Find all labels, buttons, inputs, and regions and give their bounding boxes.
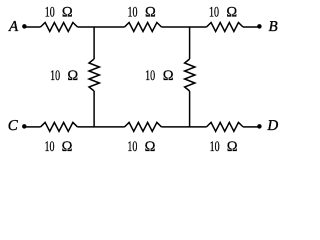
wire R2 to R3 through top junction 2 xyxy=(162,26,207,28)
resistor R2 10 ohm top-middle xyxy=(125,23,162,32)
wire R8 down to bottom junction 2 xyxy=(189,91,191,127)
wire top junction 2 down to R8 xyxy=(189,27,191,59)
wire R6 to node D xyxy=(243,126,258,128)
svg-text:10: 10 xyxy=(127,139,137,155)
svg-text:10: 10 xyxy=(128,5,138,21)
resistor R8 10 ohm vertical-right xyxy=(185,59,195,91)
wire R5 to R6 through bottom junction 2 xyxy=(162,126,207,128)
svg-text:10: 10 xyxy=(209,5,219,21)
svg-text:Ω: Ω xyxy=(145,5,156,21)
wire R7 down to bottom junction 1 xyxy=(93,91,95,127)
resistor R4 10 ohm bottom-left xyxy=(41,122,78,131)
resistor R6 10 ohm bottom-right xyxy=(207,122,244,131)
wire top junction 1 down to R7 xyxy=(93,27,95,59)
wire node C to R4 xyxy=(26,126,41,128)
svg-text:Ω: Ω xyxy=(145,139,156,155)
resistor R7 10 ohm vertical-left xyxy=(89,59,99,91)
svg-text:Ω: Ω xyxy=(62,139,73,155)
svg-text:10: 10 xyxy=(145,68,155,84)
resistor R1 10 ohm top-left xyxy=(41,23,78,32)
svg-text:10: 10 xyxy=(45,139,55,155)
svg-text:10: 10 xyxy=(45,5,55,21)
svg-text:C: C xyxy=(8,118,19,134)
resistor R5 10 ohm bottom-middle xyxy=(125,122,162,131)
wire R4 to R5 through bottom junction 1 xyxy=(78,126,125,128)
svg-text:10: 10 xyxy=(210,139,220,155)
svg-text:10: 10 xyxy=(50,68,60,84)
svg-text:B: B xyxy=(269,19,278,35)
terminal dot at node A xyxy=(22,24,27,29)
svg-text:Ω: Ω xyxy=(62,5,73,21)
resistor R3 10 ohm top-right xyxy=(207,23,244,32)
svg-text:Ω: Ω xyxy=(227,139,238,155)
terminal dot at node D xyxy=(257,124,262,129)
svg-text:Ω: Ω xyxy=(67,68,78,84)
svg-text:D: D xyxy=(266,118,278,134)
svg-text:A: A xyxy=(8,19,19,35)
wire R1 to R2 through top junction 1 xyxy=(78,26,125,28)
terminal dot at node C xyxy=(22,124,27,129)
wire node A to R1 xyxy=(26,26,41,28)
terminal dot at node B xyxy=(257,24,262,29)
svg-text:Ω: Ω xyxy=(226,5,237,21)
svg-text:Ω: Ω xyxy=(163,68,174,84)
wire R3 to node B xyxy=(243,26,258,28)
